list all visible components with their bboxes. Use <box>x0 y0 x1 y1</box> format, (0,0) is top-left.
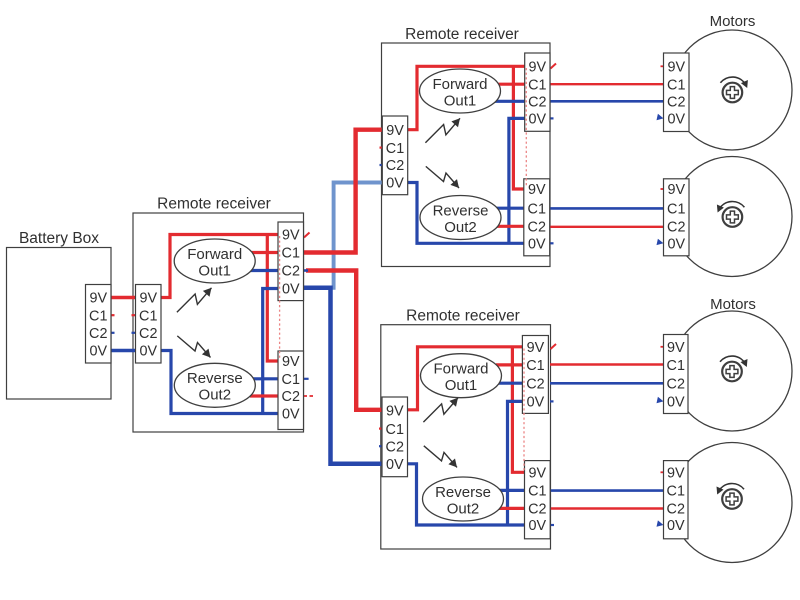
RX3 Reverse Out2 bubble <box>423 477 504 521</box>
svg-text:0V: 0V <box>667 518 685 534</box>
wire RX1 9V rail <box>161 235 278 298</box>
RX1 radio arrow to Out2 <box>177 336 210 358</box>
marker M4 0V arrow <box>657 520 664 526</box>
wire battery C1 stub right <box>132 314 136 316</box>
wire RX3 C1 stub <box>379 428 383 430</box>
svg-text:C2: C2 <box>667 94 685 110</box>
wire RX3 9V rail <box>408 347 523 410</box>
svg-text:Motors: Motors <box>710 13 756 30</box>
wire RX1 upper 9V tick <box>304 233 310 238</box>
marker RX3 9V tick <box>551 344 557 349</box>
wire RX3 Out2 C1 <box>497 489 525 492</box>
marker M1 0V arrow <box>657 114 664 120</box>
svg-text:9V: 9V <box>529 59 547 75</box>
wire battery C1 stub left <box>111 314 115 316</box>
RX3 output2 terminal block <box>525 461 551 539</box>
svg-text:C2: C2 <box>667 376 685 392</box>
wire RX2 C1 stub <box>380 147 383 149</box>
RX2 radio arrow to Out1 <box>425 118 460 142</box>
wire RX2 9V branch to lower block <box>513 66 523 189</box>
RX3 input terminal block <box>382 397 408 477</box>
RX3 output1 terminal block <box>522 336 548 414</box>
wire RX1 lower C2 dashes <box>304 395 314 397</box>
wire RX3 C2 to M4 C2 <box>550 507 663 509</box>
RX1 output1 terminal block <box>278 222 304 301</box>
svg-text:C1: C1 <box>139 308 157 324</box>
svg-text:Motors: Motors <box>710 296 756 313</box>
wire RX3 0V left rail <box>408 464 525 525</box>
wire RX1 upper C2 stub <box>304 269 309 272</box>
svg-text:Reverse: Reverse <box>435 484 491 501</box>
svg-text:C2: C2 <box>89 326 107 342</box>
wire RX1 9V branch to lower block <box>267 235 278 362</box>
wire RX1 C1 to RX2 9V <box>304 130 383 253</box>
wire RX2 0V left rail <box>408 183 524 244</box>
svg-text:0V: 0V <box>386 457 404 473</box>
wire RX3 C1 to M3 C1 <box>550 363 664 365</box>
svg-text:0V: 0V <box>139 344 157 360</box>
RX1 output2 terminal block <box>278 351 304 430</box>
svg-text:C1: C1 <box>528 201 546 217</box>
wire RX3 C1 to M4 C1 <box>550 489 663 492</box>
svg-text:0V: 0V <box>529 112 547 128</box>
svg-text:9V: 9V <box>386 123 404 139</box>
motor M1 terminal block <box>664 53 690 132</box>
wire RX2 C1 to M1 C1 <box>550 83 664 85</box>
marker RX2 9V tick <box>551 64 557 69</box>
svg-text:Reverse: Reverse <box>433 202 489 219</box>
wire RX1 0V to RX3 0V <box>304 288 383 464</box>
marker RX2 0V stub <box>550 117 554 119</box>
svg-text:C1: C1 <box>667 201 685 217</box>
RX2 output1 terminal block <box>525 53 550 131</box>
svg-text:9V: 9V <box>282 354 300 370</box>
RX1 Reverse Out2 bubble <box>174 363 255 407</box>
wire RX1 Out2 C2 <box>250 394 278 397</box>
remote receiver RX3 outline <box>381 325 551 549</box>
svg-text:Remote receiver: Remote receiver <box>405 26 519 43</box>
wire RX1 hidden 9V dash <box>279 236 281 360</box>
wire RX2 9V rail <box>408 66 525 129</box>
marker M2 9V dash <box>661 188 664 190</box>
svg-text:Forward: Forward <box>433 361 488 378</box>
wire RX3 Out1 C2 <box>495 382 522 385</box>
marker RX3 0V stub <box>550 400 554 402</box>
svg-text:C2: C2 <box>386 158 404 174</box>
RX2 output2 terminal block <box>524 179 550 256</box>
svg-text:Remote receiver: Remote receiver <box>157 196 271 213</box>
marker M2 0V arrow <box>657 239 664 245</box>
wire RX2 C1 to M2 C1 <box>550 207 664 210</box>
marker M1 9V dash <box>661 65 664 67</box>
wire RX3 0V link rail <box>508 401 523 525</box>
svg-text:C1: C1 <box>667 77 685 93</box>
motor M3 terminal block <box>664 335 689 414</box>
svg-text:C1: C1 <box>282 372 300 388</box>
svg-text:Out2: Out2 <box>444 219 477 236</box>
svg-text:C1: C1 <box>528 484 546 500</box>
RX3 Forward Out1 bubble <box>421 354 502 398</box>
RX1 radio arrow to Out1 <box>177 288 212 312</box>
RX2 input terminal block <box>382 116 407 195</box>
svg-text:0V: 0V <box>386 176 404 192</box>
svg-text:0V: 0V <box>282 282 300 298</box>
wire RX2 Out1 C2 <box>494 100 525 103</box>
motor M1 body <box>672 30 792 150</box>
svg-text:0V: 0V <box>529 518 547 534</box>
svg-text:0V: 0V <box>282 407 300 423</box>
svg-text:0V: 0V <box>89 344 107 360</box>
svg-text:C1: C1 <box>667 484 685 500</box>
wire RX2 0V link rail <box>509 118 525 243</box>
motor M4 body <box>672 443 792 563</box>
RX1 input terminal block <box>136 285 162 364</box>
motor M1 rotation icon (cw) <box>723 83 743 103</box>
wire RX3 C2 stub <box>379 445 383 447</box>
svg-text:C1: C1 <box>528 77 546 93</box>
wire RX2 C2 stub <box>380 164 383 166</box>
wire RX3 Out1 C1 <box>496 363 522 366</box>
svg-text:9V: 9V <box>528 182 546 198</box>
battery box outline <box>7 248 112 400</box>
svg-text:0V: 0V <box>527 395 545 411</box>
svg-text:C1: C1 <box>386 141 404 157</box>
svg-text:C2: C2 <box>667 219 685 235</box>
RX2 radio arrow to Out2 <box>426 166 459 188</box>
wire RX1 0V link rail <box>263 289 278 414</box>
wire battery C2 stub left <box>111 332 115 334</box>
svg-text:9V: 9V <box>282 228 300 244</box>
wire RX2 Out2 C2 <box>495 225 524 228</box>
svg-text:Forward: Forward <box>432 76 487 93</box>
wire battery 9V to RX1 9V <box>111 296 136 300</box>
motor M3 rotation icon (cw) <box>722 362 742 382</box>
svg-text:0V: 0V <box>667 236 685 252</box>
svg-text:C1: C1 <box>89 308 107 324</box>
marker RX3 lower 0V stub <box>550 524 554 526</box>
marker M3 0V arrow <box>657 397 664 403</box>
svg-text:C2: C2 <box>528 219 546 235</box>
svg-text:Battery Box: Battery Box <box>19 230 99 247</box>
wire RX2 hidden 9V dash <box>525 68 527 188</box>
svg-text:9V: 9V <box>667 340 685 356</box>
wire RX3 Out2 C2 <box>496 507 525 510</box>
wire battery 0V to RX1 0V <box>111 349 136 353</box>
motor M3 body <box>672 311 792 431</box>
RX3 radio arrow to Out2 <box>424 446 457 468</box>
remote receiver RX2 outline <box>382 43 551 267</box>
marker RX2 lower 0V stub <box>550 242 554 244</box>
svg-text:C2: C2 <box>139 326 157 342</box>
svg-text:9V: 9V <box>139 291 157 307</box>
svg-text:0V: 0V <box>667 395 685 411</box>
svg-text:C1: C1 <box>282 246 300 262</box>
motor M4 rotation icon (ccw) <box>722 489 742 509</box>
wire RX1 Out2 C1 <box>251 377 278 380</box>
svg-text:C2: C2 <box>526 376 544 392</box>
wire RX1 0V left rail <box>161 351 278 414</box>
RX2 Forward Out1 bubble <box>420 69 501 113</box>
remote receiver RX1 outline <box>133 213 304 432</box>
marker M3 9V dash <box>661 346 664 348</box>
svg-text:Out1: Out1 <box>444 92 477 109</box>
svg-text:9V: 9V <box>386 403 404 419</box>
wire RX3 C2 to M3 C2 <box>550 382 664 385</box>
motor M2 body <box>672 157 792 277</box>
svg-text:9V: 9V <box>667 182 685 198</box>
svg-text:C2: C2 <box>282 389 300 405</box>
wire RX1 Out1 C1 <box>250 251 278 254</box>
wire RX2 C2 to M2 C2 <box>550 226 664 228</box>
RX2 Reverse Out2 bubble <box>420 196 501 240</box>
svg-text:9V: 9V <box>667 465 685 481</box>
wire RX2 Out1 C1 <box>495 83 525 86</box>
svg-text:Out2: Out2 <box>199 387 232 404</box>
wire battery C2 stub right <box>132 332 136 334</box>
svg-text:9V: 9V <box>89 291 107 307</box>
svg-text:9V: 9V <box>527 340 545 356</box>
wire RX1 Out1 C2 <box>249 269 278 272</box>
svg-text:Reverse: Reverse <box>187 370 243 387</box>
wire RX2 Out2 C1 <box>496 207 524 210</box>
svg-text:C2: C2 <box>528 94 546 110</box>
svg-text:C1: C1 <box>386 422 404 438</box>
svg-text:Out1: Out1 <box>445 377 478 394</box>
svg-text:0V: 0V <box>528 236 546 252</box>
svg-text:C1: C1 <box>667 358 685 374</box>
svg-text:9V: 9V <box>529 465 547 481</box>
svg-text:C2: C2 <box>528 502 546 518</box>
svg-text:C2: C2 <box>667 502 685 518</box>
motor M4 terminal block <box>664 461 689 539</box>
svg-text:C1: C1 <box>526 358 544 374</box>
wire RX3 hidden 9V dash <box>523 349 525 471</box>
RX3 radio arrow to Out1 <box>423 398 458 422</box>
svg-text:Forward: Forward <box>187 246 242 263</box>
battery terminal block <box>86 285 112 364</box>
svg-text:0V: 0V <box>667 112 685 128</box>
wire RX1 C2 to RX3 9V <box>306 271 382 410</box>
motor M2 terminal block <box>664 179 690 256</box>
motor M2 rotation icon (ccw) <box>723 207 743 227</box>
wire RX1 lower C1 stub <box>304 378 309 380</box>
wire RX2 C2 to M1 C2 <box>550 100 664 103</box>
svg-text:Out2: Out2 <box>447 500 480 517</box>
svg-text:C2: C2 <box>386 439 404 455</box>
wire RX3 9V branch to lower block <box>512 347 524 473</box>
svg-text:C2: C2 <box>282 264 300 280</box>
svg-text:Remote receiver: Remote receiver <box>406 308 520 325</box>
marker M4 9V dash <box>661 471 664 473</box>
wire RX2 0V return (light blue) <box>334 183 383 290</box>
RX1 Forward Out1 bubble <box>174 239 255 283</box>
svg-text:Out1: Out1 <box>198 262 231 279</box>
svg-text:9V: 9V <box>667 59 685 75</box>
